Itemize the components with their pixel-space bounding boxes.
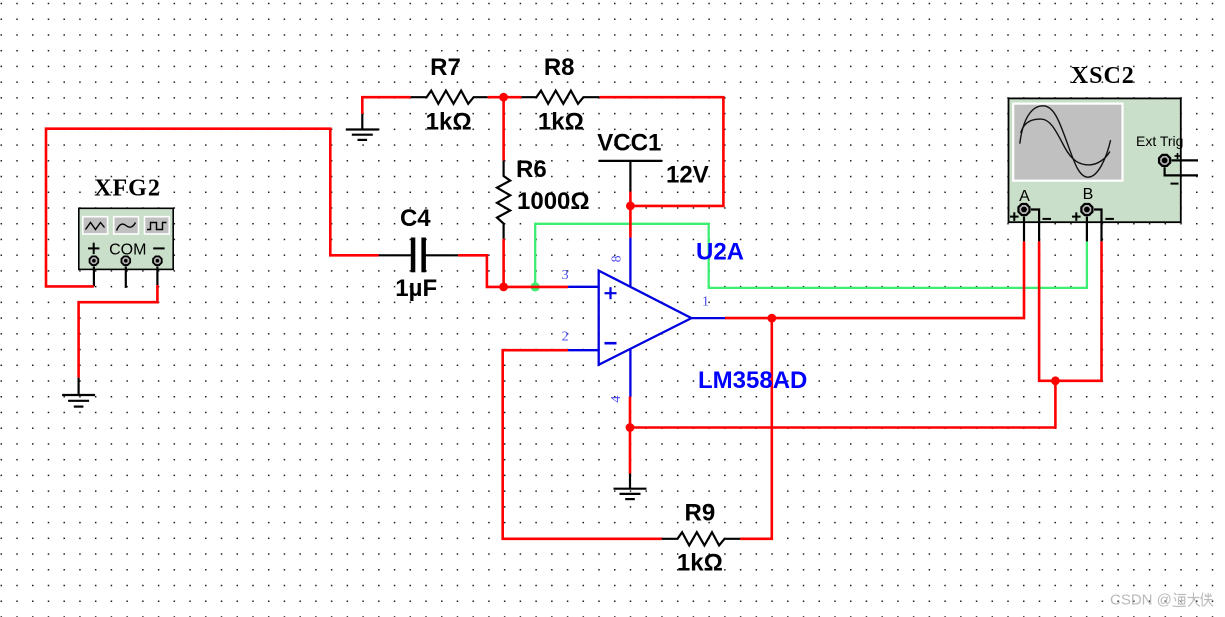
svg-text:4: 4 — [609, 396, 624, 403]
svg-text:1: 1 — [702, 295, 709, 310]
svg-text:1000Ω: 1000Ω — [517, 188, 590, 215]
svg-text:LM358AD: LM358AD — [698, 367, 807, 394]
svg-text:A: A — [1019, 188, 1030, 205]
svg-text:XSC2: XSC2 — [1071, 63, 1135, 89]
svg-text:B: B — [1083, 186, 1094, 203]
svg-text:1kΩ: 1kΩ — [538, 109, 584, 136]
svg-text:XFG2: XFG2 — [94, 176, 161, 202]
svg-text:8: 8 — [610, 255, 625, 262]
svg-text:COM: COM — [109, 242, 146, 259]
svg-text:12V: 12V — [666, 162, 709, 189]
svg-text:VCC1: VCC1 — [597, 130, 661, 157]
svg-text:Ext Trig: Ext Trig — [1136, 133, 1183, 149]
svg-text:U2A: U2A — [696, 239, 744, 266]
svg-text:CSDN @: CSDN @ — [1110, 592, 1172, 609]
svg-text:1kΩ: 1kΩ — [677, 550, 723, 577]
svg-text:3: 3 — [562, 268, 569, 283]
svg-text:C4: C4 — [400, 205, 431, 232]
svg-text:R6: R6 — [516, 156, 547, 183]
svg-text:R9: R9 — [685, 500, 716, 527]
svg-text:2: 2 — [562, 329, 569, 344]
svg-text:1kΩ: 1kΩ — [426, 109, 472, 136]
svg-text:1µF: 1µF — [395, 275, 437, 302]
svg-text:R7: R7 — [430, 54, 461, 81]
svg-text:R8: R8 — [544, 54, 575, 81]
